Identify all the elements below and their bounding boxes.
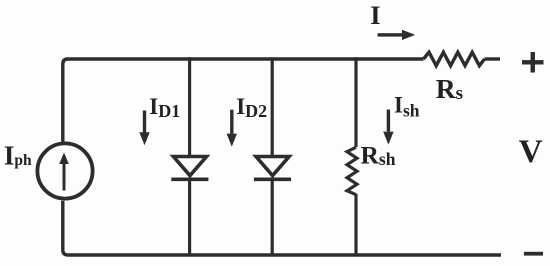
wire: Rs right lead (485, 57, 501, 60)
diode D2 cathode bar (254, 178, 291, 182)
arrow: current ID1 (143, 111, 146, 134)
svg-text:Rs: Rs (436, 73, 463, 104)
diode D2 triangle (256, 157, 289, 176)
arrow: current ID2 (230, 110, 233, 134)
svg-text:V: V (519, 134, 543, 170)
diode D1 triangle (173, 157, 206, 176)
minus terminal (524, 252, 543, 256)
resistor Rsh zigzag (347, 147, 357, 194)
wire: diode D2 branch top (271, 57, 274, 156)
wire: left rail bottom + bottom rail (63, 201, 501, 255)
arrow: current Ish (387, 110, 390, 132)
diode D1 cathode bar (171, 178, 208, 182)
resistor Rs zigzag (424, 52, 485, 65)
svg-text:Ish: Ish (394, 93, 420, 121)
svg-text:ID2: ID2 (236, 94, 267, 121)
svg-text:I: I (370, 0, 380, 30)
wire: Rsh branch bottom (354, 194, 357, 256)
wire: Rsh branch top (354, 57, 357, 147)
arrow: output current I (378, 33, 403, 36)
plus terminal (522, 60, 544, 64)
wire: left rail top + top rail (63, 59, 424, 142)
svg-text:ID1: ID1 (149, 94, 180, 121)
wire: diode D1 branch bottom (188, 179, 191, 256)
svg-text:Iph: Iph (4, 140, 32, 170)
arrow inside current source Iph (63, 162, 66, 191)
current source Iph circle (37, 143, 92, 198)
svg-text:Rsh: Rsh (361, 140, 396, 169)
wire: diode D2 branch bottom (271, 179, 274, 256)
wire: diode D1 branch top (188, 57, 191, 156)
